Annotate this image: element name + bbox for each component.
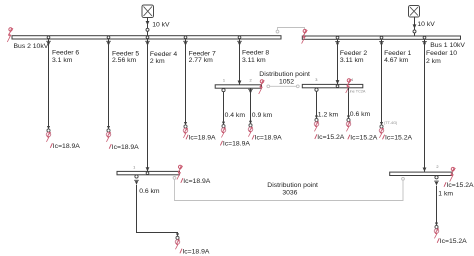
- svg-text:0.4 km: 0.4 km: [225, 112, 246, 119]
- svg-text:Ic=18.9A: Ic=18.9A: [255, 135, 282, 142]
- svg-text:1 km: 1 km: [438, 191, 453, 198]
- breaker feeder 7: [183, 36, 188, 46]
- svg-text:3036: 3036: [282, 189, 297, 196]
- svg-text:2 km: 2 km: [426, 58, 441, 65]
- wire line 0.9 km: [250, 88, 252, 121]
- load end feeder 7: [183, 122, 188, 138]
- svg-text:1: 1: [133, 164, 135, 169]
- load end feeder 5: [106, 126, 111, 142]
- svg-text:Ic=18.9A: Ic=18.9A: [223, 141, 250, 148]
- wire feeder 2: [337, 39, 339, 84]
- external grid G1: [142, 5, 154, 18]
- svg-text:Distribution point: Distribution point: [267, 182, 318, 189]
- fault bolt DP3036 left end: [177, 165, 183, 179]
- wire line 1.2 km: [316, 91, 318, 115]
- svg-text:3.11 km: 3.11 km: [340, 57, 364, 64]
- svg-text:Ic=15.2A: Ic=15.2A: [447, 182, 474, 189]
- fault bolt on tie at Bus 1 end: [302, 29, 308, 43]
- bus DP1052 right section: [302, 84, 363, 87]
- svg-text:Ic=15.2A: Ic=15.2A: [317, 134, 344, 141]
- switch DP3036 left conn: [134, 175, 139, 185]
- breaker feeder 2: [335, 36, 340, 46]
- breaker feeder 5: [106, 36, 111, 46]
- result Ic=15.2A (feeder 1): [383, 135, 413, 142]
- svg-text:1052: 1052: [279, 78, 294, 85]
- wire line 0.6 km (right): [348, 88, 350, 116]
- svg-text:(TT-4G): (TT-4G): [384, 121, 398, 125]
- wire feeder 4: [147, 39, 149, 171]
- load end 1 km: [434, 223, 439, 239]
- breaker feeder 1: [379, 36, 384, 46]
- svg-text:2: 2: [250, 77, 252, 82]
- svg-text:Ic=18.9A: Ic=18.9A: [112, 144, 139, 151]
- wire feeder 5: [108, 39, 110, 126]
- breaker feeder 8: [237, 36, 242, 46]
- wire feeder 7: [185, 39, 187, 122]
- load end feeder 1: [379, 122, 384, 138]
- svg-text:Ic=18.9A: Ic=18.9A: [189, 135, 216, 142]
- wire grid G1 to Bus 2: [146, 18, 150, 36]
- svg-text:Ic=15.2A: Ic=15.2A: [350, 135, 377, 142]
- breaker feeder 10: [422, 36, 427, 46]
- svg-text:1.2 km: 1.2 km: [318, 112, 339, 119]
- load end 0.6 km (right): [346, 116, 351, 132]
- arrow feeder 8 into DP1052: [238, 81, 242, 88]
- wire feeder 10: [424, 39, 426, 171]
- svg-text:3: 3: [315, 77, 317, 82]
- load end 1.2 km: [314, 116, 319, 132]
- bus DP3036 left section: [117, 171, 180, 174]
- result Ic=18.9A (bottom load): [180, 249, 210, 256]
- wire line 0.4 km: [223, 92, 225, 122]
- svg-text:Ic=18.9A: Ic=18.9A: [182, 249, 209, 256]
- result Ic=15.2A (0.6 km right): [348, 135, 378, 142]
- svg-text:2: 2: [436, 164, 438, 169]
- svg-text:0.9 km: 0.9 km: [252, 112, 273, 119]
- svg-text:3.11 km: 3.11 km: [242, 57, 266, 64]
- svg-text:4.67 km: 4.67 km: [384, 57, 409, 64]
- svg-text:Bus 1 10kV: Bus 1 10kV: [430, 42, 465, 49]
- svg-text:Ic=15.2A: Ic=15.2A: [385, 135, 412, 142]
- svg-text:Ic=18.9A: Ic=18.9A: [53, 143, 80, 150]
- result Ic=18.9A (feeder 6): [50, 143, 80, 150]
- load end feeder 6: [46, 126, 51, 142]
- result Ic=18.9A (feeder 7): [186, 135, 216, 142]
- svg-text:1: 1: [223, 77, 225, 82]
- fault bolt DP1052 conn 4: [346, 79, 352, 93]
- result Ic=18.9A (0.9 km): [252, 135, 282, 142]
- bus Bus 1 10kV: [302, 36, 460, 39]
- arrow feeder 4 into DP3036 left: [146, 167, 150, 174]
- svg-text:10 kV: 10 kV: [417, 21, 435, 28]
- load end 0.6 km (bottom): [175, 233, 180, 249]
- external grid G2: [409, 6, 420, 18]
- fault bolt DP1052 left end: [259, 80, 265, 94]
- breaker feeder 4: [145, 36, 150, 46]
- svg-text:Ic=15.2A: Ic=15.2A: [440, 238, 467, 245]
- svg-text:Bus 2 10kV: Bus 2 10kV: [14, 43, 49, 50]
- tie line DP3036 left to right (open, grey): [173, 177, 404, 201]
- svg-text:Ic=18.9A: Ic=18.9A: [183, 178, 210, 185]
- result Ic=18.9A (DP3036 left): [181, 178, 211, 185]
- svg-text:0.6 km: 0.6 km: [350, 111, 371, 118]
- wire feeder 1: [381, 39, 383, 122]
- svg-text:2.77 km: 2.77 km: [189, 57, 214, 64]
- tie line between DP1052 sections (open, grey): [267, 85, 299, 88]
- breaker feeder 6: [46, 36, 51, 46]
- result Ic=15.2A (DP3036 right): [444, 182, 474, 189]
- bus Bus 2 10kV: [12, 36, 281, 39]
- result Ic=15.2A (1 km load): [437, 238, 467, 245]
- fault bolt DP3036 right end: [450, 167, 456, 181]
- svg-text:Feeder 8: Feeder 8: [242, 50, 269, 57]
- svg-text:Feeder 10: Feeder 10: [426, 50, 457, 57]
- wire line 1 km: [436, 186, 438, 223]
- svg-text:0.6 km: 0.6 km: [139, 188, 160, 195]
- result Ic=15.2A (1.2 km): [315, 134, 345, 141]
- svg-text:Line TC2A: Line TC2A: [348, 90, 366, 94]
- switch DP1052 conn 1: [222, 89, 225, 92]
- wire grid G2 to Bus 1: [413, 17, 417, 36]
- fault bolt at Bus 2 left end: [7, 28, 12, 42]
- svg-text:10 kV: 10 kV: [152, 21, 170, 28]
- bus DP1052 left section: [215, 85, 261, 88]
- switch DP3036 right conn: [434, 176, 439, 186]
- load end 0.4 km: [221, 122, 226, 138]
- switch DP1052 conn 2: [248, 89, 253, 93]
- load end 0.9 km: [248, 121, 253, 137]
- wire line 0.6 km (bottom): [137, 185, 178, 234]
- result Ic=18.9A (0.4 km): [220, 141, 250, 148]
- svg-text:2.56 km: 2.56 km: [112, 57, 137, 64]
- tie line Bus2 to Bus1 (open, grey): [276, 28, 304, 36]
- svg-text:3.1 km: 3.1 km: [52, 57, 73, 64]
- wire feeder 6: [48, 39, 50, 126]
- svg-text:4: 4: [351, 77, 354, 82]
- svg-text:Distribution point: Distribution point: [259, 71, 310, 78]
- result Ic=18.9A (feeder 5): [109, 144, 139, 151]
- svg-text:2 km: 2 km: [150, 58, 165, 65]
- wire feeder 8: [239, 39, 241, 85]
- svg-text:Feeder 6: Feeder 6: [52, 50, 79, 57]
- arrow feeder 10 into DP3036 right: [423, 168, 427, 176]
- bus DP3036 right section: [390, 172, 453, 175]
- switch DP1052 conn 3: [315, 88, 318, 91]
- arrow feeder 2 into DP1052: [336, 80, 340, 87]
